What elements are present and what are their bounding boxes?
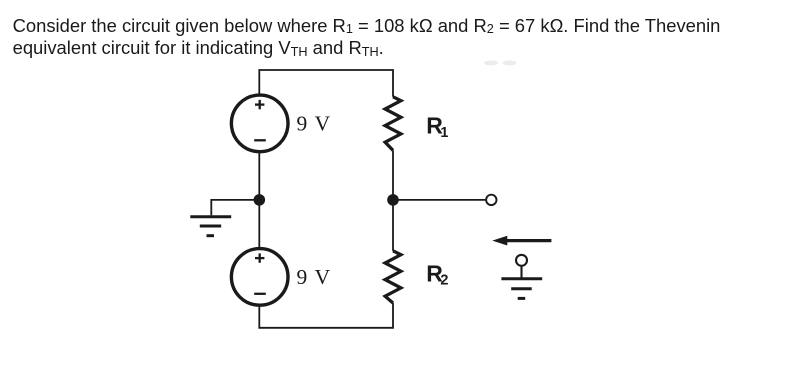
wire: node B to output terminal — [393, 199, 485, 201]
erased smudge — [484, 61, 517, 66]
svg-text:R1: R1 — [426, 112, 448, 140]
wire: node A to ground stub — [211, 200, 259, 215]
resistor R2 — [385, 251, 401, 303]
svg-text:9V: 9V — [297, 265, 331, 289]
resistor R1 — [385, 97, 401, 151]
wire: node A to V2 / V2 bottom to bottom rail — [259, 303, 393, 328]
wire top — [259, 70, 393, 97]
voltage source V2 — [231, 249, 288, 306]
ground (left) — [190, 217, 231, 236]
wire: V1 bottom to node A — [258, 153, 260, 247]
svg-text:R2: R2 — [426, 260, 448, 288]
node B junction dot — [387, 194, 399, 206]
arrow (pointing left) — [492, 236, 551, 246]
output terminal — [486, 195, 496, 205]
voltage source V1 — [231, 95, 288, 152]
probe ground (right) — [501, 255, 542, 299]
node A junction dot — [253, 194, 265, 206]
wire: R1 bottom to node B to R2 top — [392, 150, 394, 250]
svg-text:9V: 9V — [297, 112, 331, 136]
